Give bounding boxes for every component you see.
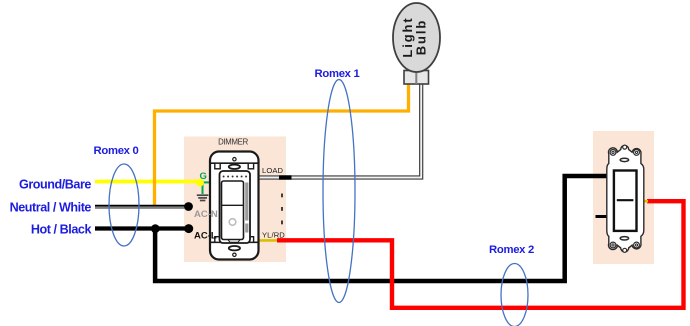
ground symbol — [197, 194, 209, 196]
bulb ellipse — [393, 3, 440, 72]
screw slot top — [229, 165, 240, 169]
dashed marks right of dimmer — [281, 194, 283, 225]
dimmer yoke bottom — [211, 241, 259, 243]
dimmer box background — [184, 137, 286, 263]
switch box background — [593, 131, 654, 264]
wire neutral (gray double) — [95, 205, 189, 207]
slider bar — [245, 183, 248, 221]
romex 2 ellipse — [501, 264, 528, 326]
svg-text:Romex 0: Romex 0 — [94, 145, 139, 157]
rocker — [614, 171, 637, 231]
dimmer device — [210, 152, 259, 260]
svg-text:YL/RD: YL/RD — [262, 230, 285, 239]
dimmer plate — [210, 152, 259, 260]
screw slot bottom — [229, 246, 240, 250]
wire ground (yellow) — [95, 180, 201, 184]
svg-text:LOAD: LOAD — [262, 166, 283, 175]
wire traveler (red) — [277, 201, 684, 308]
keyhole bottom — [623, 248, 627, 252]
wire yellow tick at switch — [642, 200, 648, 203]
node: AC-N terminal dot — [184, 202, 193, 211]
wire hot (black) — [95, 226, 189, 230]
paddle — [222, 181, 244, 240]
svg-text:AC-N: AC-N — [194, 209, 218, 220]
switch device — [607, 145, 644, 252]
switch silhouette — [607, 146, 644, 252]
LOAD terminal block — [279, 175, 292, 179]
wire bulb neutral (orange) — [155, 83, 409, 207]
svg-text:G: G — [200, 171, 207, 182]
screw bottom — [233, 253, 236, 256]
bulb base — [404, 71, 429, 85]
node: ground yellow dot — [196, 179, 204, 187]
wire YL/RD yellow segment at dimmer — [259, 239, 279, 242]
svg-text:DIMMER: DIMMER — [218, 138, 248, 147]
mounting slot bottom — [620, 237, 628, 240]
light bulb — [393, 3, 440, 84]
ground pigtail green wire — [200, 181, 210, 183]
svg-text:Bulb: Bulb — [414, 19, 429, 55]
bulb label — [400, 16, 428, 57]
screw ears (donuts) — [610, 150, 639, 248]
svg-text:Neutral / White: Neutral / White — [10, 201, 92, 215]
svg-text:Hot / Black: Hot / Black — [31, 223, 93, 237]
svg-text:Romex 2: Romex 2 — [489, 244, 534, 256]
screw top — [233, 158, 236, 161]
svg-text:Ground/Bare: Ground/Bare — [19, 177, 91, 191]
wire hot to switch (black) — [155, 176, 606, 281]
svg-text:AC-L: AC-L — [194, 231, 217, 242]
wire hot stub on switch — [596, 215, 608, 218]
dimmer yoke top — [211, 162, 259, 164]
indicator circle — [229, 219, 236, 226]
paddle bottom tab — [228, 240, 240, 242]
dots row — [223, 176, 248, 178]
wire LOAD to bulb (gray double) — [259, 83, 421, 178]
keyhole top — [623, 145, 627, 149]
node: AC-L terminal dot — [184, 224, 193, 233]
dimmer body — [220, 171, 251, 243]
romex 1 ellipse — [323, 80, 355, 303]
mounting slot top — [620, 158, 628, 161]
node: junction hot wire — [151, 224, 160, 233]
romex 0 ellipse — [109, 164, 139, 246]
svg-text:Romex 1: Romex 1 — [315, 68, 360, 80]
